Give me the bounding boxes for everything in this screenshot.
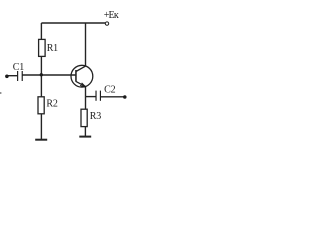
resistor R3 (81, 109, 87, 126)
transistor collector diagonal (76, 66, 86, 71)
transistor VT1 circle (71, 65, 93, 87)
wire collector drop (85, 23, 87, 66)
node input terminal dot (5, 75, 9, 79)
ground bar right (79, 136, 91, 138)
transistor emitter arrowhead (80, 83, 86, 87)
wire top supply rail (41, 22, 105, 24)
resistor R1 (39, 39, 46, 56)
svg-text:R1: R1 (47, 43, 58, 54)
ground bar left (35, 139, 47, 141)
wire emitter vertical (85, 86, 87, 96)
transistor emitter diagonal (76, 81, 86, 86)
resistor R2 (38, 97, 44, 114)
wire emitter node to C2 (86, 96, 96, 98)
node output terminal dot (123, 95, 127, 99)
svg-text:R2: R2 (46, 98, 57, 109)
capacitor C2 right plate (100, 91, 101, 101)
wire input terminal to C1 (7, 75, 17, 77)
terminal +Ek open circle (105, 22, 108, 25)
wire R1 top lead (40, 23, 42, 39)
wire C2 to output terminal (101, 96, 124, 98)
wire C1 to transistor base (22, 74, 75, 76)
wire R1 bottom lead to base node (40, 56, 42, 75)
wire R2 to ground (40, 114, 42, 139)
svg-text:C1: C1 (13, 62, 24, 73)
capacitor C1 right plate (22, 71, 23, 81)
wire base node to R2 (40, 75, 42, 97)
capacitor C1 left plate (17, 71, 18, 81)
svg-text:R3: R3 (90, 111, 101, 122)
speck artifact at left edge (0, 92, 1, 94)
svg-text:+Ек: +Ек (104, 10, 119, 21)
transistor base bar (75, 70, 77, 82)
svg-text:C2: C2 (104, 85, 115, 96)
capacitor C2 left plate (95, 91, 96, 101)
wire R3 to ground (84, 127, 86, 137)
node base junction dot (40, 73, 43, 76)
wire emitter node to R3 (85, 97, 87, 110)
